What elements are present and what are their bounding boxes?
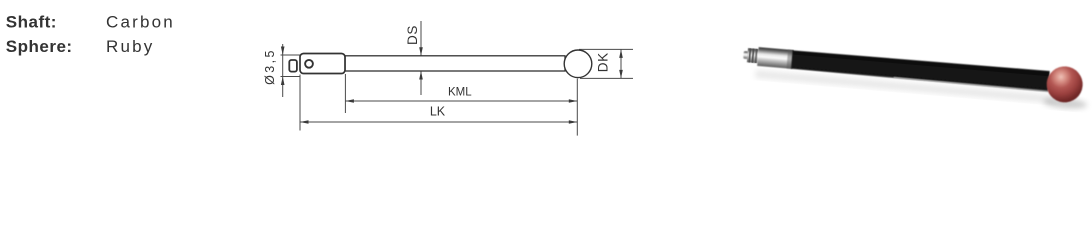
- svg-text:Ruby: Ruby: [106, 37, 155, 56]
- svg-text:DK: DK: [596, 52, 611, 72]
- svg-text:Ø3,5: Ø3,5: [263, 48, 277, 85]
- svg-text:Carbon: Carbon: [106, 13, 175, 32]
- svg-text:LK: LK: [430, 105, 446, 119]
- svg-text:Sphere:: Sphere:: [6, 37, 73, 56]
- svg-text:KML: KML: [448, 87, 472, 99]
- svg-text:Shaft:: Shaft:: [6, 13, 57, 32]
- svg-text:DS: DS: [405, 25, 420, 45]
